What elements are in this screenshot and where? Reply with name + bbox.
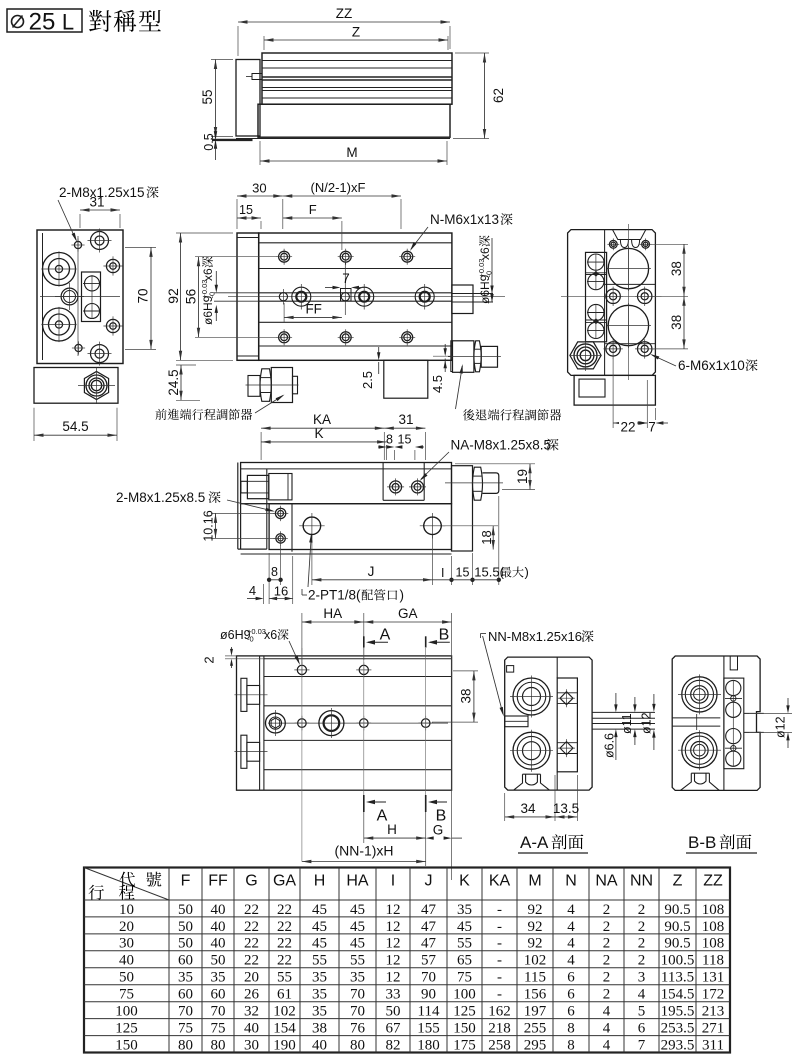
svg-text:70: 70 [178, 1004, 193, 1020]
svg-text:40: 40 [211, 902, 226, 918]
svg-text:I: I [441, 566, 444, 580]
svg-text:4: 4 [638, 987, 646, 1003]
svg-text:ø6H9: ø6H9 [201, 295, 215, 325]
svg-text:2: 2 [603, 919, 611, 935]
svg-text:113.5: 113.5 [661, 970, 694, 986]
svg-text:): ) [525, 565, 529, 580]
svg-text:(NN-1)xH: (NN-1)xH [334, 843, 393, 859]
svg-text:55: 55 [350, 953, 365, 969]
svg-text:218: 218 [488, 1021, 511, 1037]
svg-text:6: 6 [638, 1021, 646, 1037]
svg-text:12: 12 [386, 953, 401, 969]
svg-text:GA: GA [273, 873, 296, 890]
svg-text:82: 82 [386, 1037, 401, 1053]
svg-text:45: 45 [350, 919, 365, 935]
svg-text:K: K [314, 426, 323, 441]
svg-text:271: 271 [702, 1021, 725, 1037]
svg-text:4: 4 [567, 902, 575, 918]
svg-text:6: 6 [567, 987, 575, 1003]
svg-text:45: 45 [350, 902, 365, 918]
svg-text:B-B: B-B [688, 833, 716, 852]
svg-text:HA: HA [323, 606, 342, 621]
svg-text:62: 62 [491, 88, 506, 103]
svg-text:70: 70 [350, 987, 365, 1003]
svg-text:114: 114 [418, 1004, 440, 1020]
svg-text:8: 8 [271, 565, 278, 579]
svg-text:295: 295 [524, 1037, 547, 1053]
svg-text:293.5: 293.5 [661, 1037, 695, 1053]
svg-text:22: 22 [277, 936, 292, 952]
svg-text:80: 80 [350, 1037, 365, 1053]
svg-text:M: M [528, 873, 541, 890]
svg-text:2: 2 [638, 902, 646, 918]
svg-text:38: 38 [459, 688, 474, 703]
svg-text:15: 15 [239, 203, 253, 217]
svg-text:15.5(: 15.5( [474, 565, 504, 580]
svg-text:155: 155 [417, 1021, 440, 1037]
svg-text:50: 50 [178, 919, 193, 935]
svg-text:3: 3 [638, 970, 646, 986]
svg-text:22: 22 [277, 919, 292, 935]
svg-text:FF: FF [305, 302, 322, 317]
svg-text:2: 2 [603, 936, 611, 952]
svg-text:45: 45 [457, 919, 472, 935]
svg-text:35: 35 [350, 970, 365, 986]
svg-text:35: 35 [312, 970, 327, 986]
svg-text:65: 65 [457, 953, 472, 969]
svg-text:190: 190 [273, 1037, 296, 1053]
svg-text:47: 47 [421, 902, 437, 918]
svg-text:70: 70 [350, 1004, 365, 1020]
svg-text:15: 15 [398, 433, 412, 447]
svg-text:13.5: 13.5 [553, 801, 579, 816]
svg-text:108: 108 [702, 936, 725, 952]
svg-text:GA: GA [398, 606, 418, 621]
svg-text:NA-M8x1.25x8.5: NA-M8x1.25x8.5 [451, 438, 552, 453]
svg-text:30: 30 [119, 936, 134, 952]
svg-text:-: - [497, 987, 502, 1003]
svg-text:4: 4 [567, 919, 575, 935]
svg-text:8: 8 [386, 433, 393, 447]
svg-text:57: 57 [421, 953, 437, 969]
svg-text:A-A: A-A [520, 833, 549, 852]
svg-text:22: 22 [277, 953, 292, 969]
svg-text:50: 50 [386, 1004, 401, 1020]
svg-text:100: 100 [115, 1004, 138, 1020]
svg-text:55: 55 [277, 970, 292, 986]
svg-text:K: K [459, 873, 470, 890]
svg-text:4.5: 4.5 [430, 375, 445, 393]
svg-text:75: 75 [457, 970, 472, 986]
svg-text:H: H [314, 873, 326, 890]
svg-text:2: 2 [638, 936, 646, 952]
svg-text:92: 92 [528, 936, 543, 952]
svg-text:102: 102 [524, 953, 547, 969]
svg-text:N: N [565, 873, 577, 890]
svg-text:175: 175 [453, 1037, 476, 1053]
svg-text:HA: HA [346, 873, 369, 890]
svg-text:34: 34 [520, 801, 536, 816]
svg-text:16: 16 [274, 584, 288, 599]
svg-text:12: 12 [386, 936, 401, 952]
svg-text:-: - [497, 953, 502, 969]
svg-text:10: 10 [119, 902, 134, 918]
svg-text:L: L [62, 10, 74, 35]
svg-text:50: 50 [211, 953, 226, 969]
svg-text:90.5: 90.5 [664, 936, 690, 952]
svg-text:20: 20 [119, 919, 134, 935]
svg-text:70: 70 [211, 1004, 226, 1020]
svg-text:4: 4 [567, 953, 575, 969]
svg-text:38: 38 [312, 1021, 327, 1037]
svg-text:180: 180 [417, 1037, 440, 1053]
svg-text:40: 40 [211, 936, 226, 952]
svg-text:35: 35 [312, 987, 327, 1003]
svg-text:12: 12 [386, 970, 401, 986]
svg-text:10.16: 10.16 [202, 510, 216, 541]
svg-text:90.5: 90.5 [664, 919, 690, 935]
svg-text:108: 108 [702, 919, 725, 935]
svg-text:92: 92 [165, 288, 181, 304]
svg-text:2: 2 [638, 919, 646, 935]
svg-text:40: 40 [312, 1037, 327, 1053]
svg-text:8: 8 [567, 1021, 575, 1037]
svg-text:156: 156 [524, 987, 547, 1003]
svg-text:45: 45 [350, 936, 365, 952]
svg-text:2: 2 [603, 970, 611, 986]
svg-text:x6: x6 [264, 628, 277, 642]
svg-text:B: B [439, 627, 450, 644]
svg-text:24.5: 24.5 [166, 369, 181, 395]
svg-text:J: J [368, 564, 375, 579]
svg-text:100.5: 100.5 [661, 953, 695, 969]
svg-text:38: 38 [669, 315, 684, 330]
svg-text:-0: -0 [208, 292, 217, 299]
svg-text:12: 12 [386, 919, 401, 935]
svg-text:F: F [309, 202, 317, 217]
svg-text:60: 60 [178, 987, 193, 1003]
svg-text:54.5: 54.5 [62, 419, 88, 434]
svg-text:31: 31 [89, 195, 104, 210]
svg-text:38: 38 [669, 261, 684, 276]
svg-text:19: 19 [515, 469, 530, 484]
svg-text:ZZ: ZZ [336, 6, 353, 21]
svg-text:70: 70 [136, 288, 151, 303]
svg-text:150: 150 [115, 1037, 138, 1053]
svg-text:ø6H9: ø6H9 [478, 274, 492, 304]
svg-text:100: 100 [453, 987, 476, 1003]
svg-text:162: 162 [488, 1004, 511, 1020]
svg-text:32: 32 [244, 1004, 259, 1020]
svg-text:Z: Z [352, 25, 360, 40]
svg-text:ZZ: ZZ [703, 873, 723, 890]
svg-text:x6: x6 [201, 268, 215, 281]
svg-text:22: 22 [244, 919, 259, 935]
svg-text:2.5: 2.5 [360, 371, 375, 389]
svg-text:31: 31 [398, 412, 413, 427]
svg-text:25: 25 [29, 9, 56, 36]
svg-text:2-M8x1.25x8.5: 2-M8x1.25x8.5 [116, 490, 205, 505]
svg-text:75: 75 [178, 1021, 193, 1037]
svg-text:8: 8 [567, 1037, 575, 1053]
svg-text:80: 80 [211, 1037, 226, 1053]
svg-text:76: 76 [350, 1021, 366, 1037]
svg-text:22: 22 [244, 953, 259, 969]
svg-text:Z: Z [673, 873, 683, 890]
svg-text:15: 15 [456, 566, 470, 580]
svg-text:22: 22 [244, 936, 259, 952]
svg-text:N-M6x1x13: N-M6x1x13 [430, 212, 499, 227]
svg-text:131: 131 [702, 970, 725, 986]
svg-text:154.5: 154.5 [661, 987, 695, 1003]
svg-text:0.5: 0.5 [202, 133, 216, 150]
svg-text:22: 22 [277, 902, 292, 918]
svg-text:80: 80 [178, 1037, 193, 1053]
svg-text:A: A [377, 808, 388, 825]
svg-text:6: 6 [567, 970, 575, 986]
svg-text:2-PT1/8(: 2-PT1/8( [308, 588, 361, 603]
svg-text:20: 20 [244, 970, 259, 986]
svg-text:6: 6 [567, 1004, 575, 1020]
svg-text:60: 60 [178, 953, 193, 969]
svg-text:150: 150 [453, 1021, 476, 1037]
svg-text:61: 61 [277, 987, 292, 1003]
svg-text:213: 213 [702, 1004, 725, 1020]
svg-text:125: 125 [115, 1021, 138, 1037]
svg-text:2: 2 [603, 902, 611, 918]
svg-text:258: 258 [488, 1037, 511, 1053]
svg-text:22: 22 [244, 902, 259, 918]
svg-text:KA: KA [489, 873, 511, 890]
svg-text:30: 30 [244, 1037, 259, 1053]
svg-text:92: 92 [528, 902, 543, 918]
svg-text:2: 2 [638, 953, 646, 969]
svg-text:253.5: 253.5 [661, 1021, 695, 1037]
svg-text:2: 2 [603, 953, 611, 969]
svg-text:ø12: ø12 [640, 712, 654, 734]
svg-text:40: 40 [119, 953, 134, 969]
svg-text:(N/2-1)xF: (N/2-1)xF [311, 180, 366, 195]
svg-text:55: 55 [200, 89, 215, 104]
svg-text:A: A [380, 627, 391, 644]
svg-text:90: 90 [421, 987, 436, 1003]
svg-text:102: 102 [273, 1004, 296, 1020]
svg-text:2: 2 [202, 656, 217, 663]
svg-text:92: 92 [528, 919, 543, 935]
svg-text:108: 108 [702, 902, 725, 918]
svg-text:195.5: 195.5 [661, 1004, 695, 1020]
svg-text:4: 4 [567, 936, 575, 952]
svg-text:-: - [497, 970, 502, 986]
svg-text:-: - [497, 902, 502, 918]
svg-text:40: 40 [211, 919, 226, 935]
svg-text:-0: -0 [485, 271, 494, 278]
svg-text:154: 154 [273, 1021, 296, 1037]
svg-text:): ) [400, 588, 405, 603]
svg-text:FF: FF [208, 873, 228, 890]
svg-text:118: 118 [702, 953, 724, 969]
svg-text:35: 35 [178, 970, 193, 986]
svg-text:NN: NN [630, 873, 653, 890]
svg-text:F: F [181, 873, 191, 890]
svg-text:45: 45 [312, 902, 327, 918]
svg-text:M: M [346, 145, 357, 160]
svg-text:6-M6x1x10: 6-M6x1x10 [678, 358, 745, 373]
svg-text:35: 35 [211, 970, 226, 986]
svg-text:7: 7 [342, 271, 350, 286]
svg-text:47: 47 [421, 919, 437, 935]
svg-text:90.5: 90.5 [664, 902, 690, 918]
svg-text:NA: NA [595, 873, 618, 890]
svg-text:7: 7 [648, 420, 656, 435]
svg-text:50: 50 [178, 936, 193, 952]
svg-text:60: 60 [211, 987, 226, 1003]
svg-text:70: 70 [421, 970, 436, 986]
svg-text:125: 125 [453, 1004, 476, 1020]
svg-text:-: - [497, 919, 502, 935]
svg-text:56: 56 [183, 289, 199, 305]
svg-text:45: 45 [312, 919, 327, 935]
svg-text:4: 4 [603, 1004, 611, 1020]
svg-text:33: 33 [386, 987, 401, 1003]
svg-text:-: - [497, 936, 502, 952]
svg-text:255: 255 [524, 1021, 547, 1037]
svg-text:G: G [245, 873, 257, 890]
svg-text:ø12: ø12 [774, 716, 788, 738]
svg-text:-0: -0 [247, 635, 254, 644]
svg-text:26: 26 [244, 987, 260, 1003]
svg-text:45: 45 [312, 936, 327, 952]
svg-text:311: 311 [702, 1037, 724, 1053]
svg-text:4: 4 [249, 583, 256, 598]
svg-text:75: 75 [119, 987, 134, 1003]
svg-text:2: 2 [603, 987, 611, 1003]
svg-text:4: 4 [603, 1021, 611, 1037]
svg-text:40: 40 [244, 1021, 259, 1037]
svg-text:I: I [391, 873, 395, 890]
svg-text:ø11: ø11 [620, 713, 634, 734]
svg-text:115: 115 [524, 970, 546, 986]
svg-text:x6: x6 [478, 247, 492, 260]
svg-text:172: 172 [702, 987, 725, 1003]
svg-text:75: 75 [211, 1021, 226, 1037]
svg-text:50: 50 [178, 902, 193, 918]
svg-text:30: 30 [252, 181, 266, 196]
svg-text:50: 50 [119, 970, 134, 986]
svg-text:55: 55 [457, 936, 472, 952]
svg-text:12: 12 [386, 902, 401, 918]
svg-text:35: 35 [312, 1004, 327, 1020]
svg-text:18: 18 [479, 530, 494, 544]
svg-text:5: 5 [638, 1004, 646, 1020]
svg-text:35: 35 [457, 902, 472, 918]
svg-text:ø6.6: ø6.6 [603, 733, 617, 758]
svg-text:H: H [387, 822, 397, 837]
svg-text:197: 197 [524, 1004, 547, 1020]
svg-text:55: 55 [312, 953, 327, 969]
svg-text:7: 7 [638, 1037, 646, 1053]
svg-text:47: 47 [421, 936, 437, 952]
svg-text:G: G [433, 822, 444, 837]
svg-text:J: J [425, 873, 433, 890]
svg-text:67: 67 [386, 1021, 402, 1037]
svg-text:22: 22 [620, 420, 635, 435]
svg-text:NN-M8x1.25x16: NN-M8x1.25x16 [488, 629, 582, 644]
svg-text:4: 4 [603, 1037, 611, 1053]
